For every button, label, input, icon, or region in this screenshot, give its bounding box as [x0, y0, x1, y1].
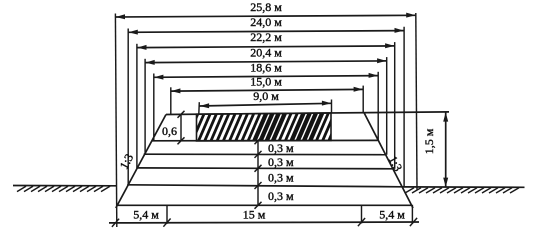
svg-text:0,3 м: 0,3 м	[268, 155, 294, 169]
layer line 2	[136, 167, 392, 170]
svg-text:24,0 м: 24,0 м	[250, 15, 282, 29]
svg-text:0,3 м: 0,3 м	[268, 189, 294, 203]
dimension 15,0 m line	[171, 75, 363, 94]
bottom oblique ticks	[112, 218, 417, 227]
dimension 22,2 m line	[137, 30, 395, 50]
svg-text:15 м: 15 м	[243, 208, 266, 222]
pavement bottom line	[152, 139, 378, 141]
svg-text:25,8 м: 25,8 м	[250, 0, 282, 14]
pavement hatched block	[186, 112, 347, 141]
svg-text:9,0 м: 9,0 м	[253, 89, 279, 103]
1,5 m vertical dimension	[422, 112, 448, 187]
svg-text:0,3 м: 0,3 м	[268, 171, 294, 185]
svg-text:5,4 м: 5,4 м	[379, 208, 405, 222]
dimension 25,8 m line	[115, 0, 415, 19]
dimension 18,6 m line	[154, 60, 378, 79]
bottom dimension line	[109, 221, 419, 224]
bottom divider right	[361, 205, 363, 224]
ground hatch left	[17, 186, 110, 191]
svg-text:1,5 м: 1,5 м	[422, 128, 436, 154]
svg-text:5,4 м: 5,4 м	[133, 208, 159, 222]
base line	[117, 204, 412, 206]
dimension 20,4 m line	[145, 46, 387, 65]
ground line left	[13, 185, 116, 187]
right slope 1:3	[364, 113, 413, 208]
svg-text:0,6: 0,6	[162, 124, 177, 138]
oblique ticks on divider	[255, 137, 262, 209]
dimension 24,0 m line	[128, 15, 404, 35]
layer line 3 (ground level)	[127, 185, 401, 187]
dimension 9,0 m line	[200, 89, 332, 108]
left extension lines	[115, 14, 199, 228]
layer label divider vertical	[257, 141, 259, 206]
ground line right	[403, 186, 525, 188]
svg-text:0,3 м: 0,3 м	[268, 141, 294, 155]
right extension lines	[332, 13, 418, 224]
svg-text:18,6 м: 18,6 м	[250, 60, 282, 74]
svg-text:20,4 м: 20,4 м	[250, 46, 282, 60]
embankment platform top line (extends right to 1,5 m dimension)	[166, 112, 449, 115]
layer line 1	[144, 153, 386, 156]
svg-text:15,0 м: 15,0 м	[250, 75, 282, 89]
left slope 1:3	[116, 115, 166, 209]
0,6 oblique ticks	[178, 111, 185, 118]
ground hatch right	[405, 188, 519, 193]
0,6 thickness box vertical	[180, 114, 182, 141]
bottom divider left	[166, 205, 168, 224]
svg-text:22,2 м: 22,2 м	[250, 30, 282, 44]
